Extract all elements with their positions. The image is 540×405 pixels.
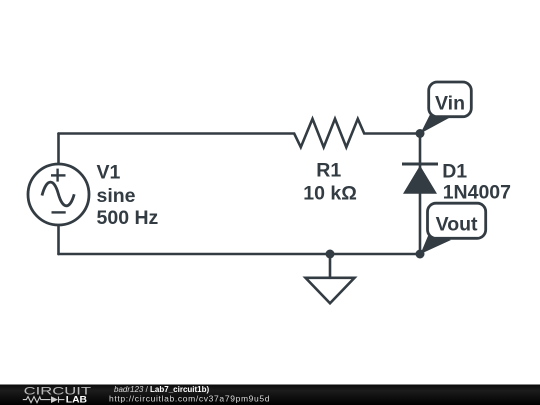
- svg-text:sine: sine: [97, 185, 136, 207]
- svg-text:1N4007: 1N4007: [443, 181, 511, 203]
- svg-text:LAB: LAB: [66, 395, 88, 405]
- svg-text:http://circuitlab.com/cv37a79p: http://circuitlab.com/cv37a79pm9u5d: [109, 394, 270, 404]
- svg-text:V1: V1: [97, 162, 121, 184]
- svg-text:D1: D1: [442, 160, 467, 182]
- svg-text:500 Hz: 500 Hz: [97, 207, 159, 229]
- svg-text:10 kΩ: 10 kΩ: [303, 183, 357, 205]
- svg-text:Vout: Vout: [436, 213, 478, 235]
- svg-text:R1: R1: [316, 159, 341, 181]
- svg-text:Vin: Vin: [435, 92, 465, 114]
